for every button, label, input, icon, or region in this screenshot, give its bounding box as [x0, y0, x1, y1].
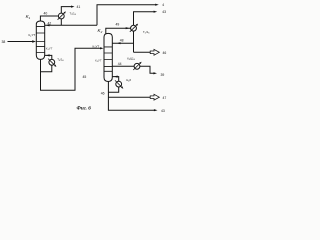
svg-text:49: 49 — [116, 23, 120, 27]
condenser diagonal arrow — [58, 13, 65, 20]
arrowhead stream 43 top — [154, 11, 158, 13]
svg-text:К2УТ: К2УТ — [93, 44, 100, 49]
column K1 trays — [36, 26, 44, 52]
arrowhead reflux K2 — [117, 42, 121, 44]
feed line 38 into K1 — [8, 41, 34, 43]
wire reflux into K2 — [112, 42, 133, 44]
arrowhead 41 — [71, 6, 75, 8]
column K2 trays — [104, 47, 112, 71]
arrowhead stream bottom right — [154, 109, 158, 111]
svg-text:41: 41 — [77, 5, 81, 9]
arrowhead into pump — [126, 27, 130, 29]
wire pump vertical main — [134, 12, 156, 53]
svg-text:Ц16: Ц16 — [126, 78, 131, 83]
svg-text:39: 39 — [161, 73, 165, 77]
svg-text:K1: K1 — [26, 14, 31, 20]
wire to open arrow 46 — [134, 51, 151, 53]
wire K1 bottoms to K2 feed — [41, 48, 102, 90]
svg-text:43: 43 — [162, 10, 166, 14]
svg-text:48: 48 — [120, 39, 124, 43]
pump circle K2 overhead — [131, 25, 137, 31]
svg-text:40: 40 — [44, 12, 48, 16]
svg-text:47: 47 — [163, 96, 167, 100]
wire condenser outlet / reflux header — [45, 19, 97, 25]
svg-text:К1УТ: К1УТ — [29, 33, 36, 38]
wire distillate 41 — [61, 7, 72, 14]
svg-text:К3УТ: К3УТ — [95, 58, 102, 63]
svg-text:K2: K2 — [98, 28, 103, 34]
svg-text:46: 46 — [101, 92, 105, 96]
svg-text:4: 4 — [162, 3, 164, 7]
svg-text:38: 38 — [2, 40, 6, 44]
svg-text:42: 42 — [48, 21, 52, 25]
wire K2 overhead — [106, 28, 131, 33]
svg-text:45: 45 — [83, 75, 87, 79]
circle on side draw — [134, 63, 140, 69]
wire K2 bottoms — [108, 82, 155, 111]
svg-text:К3УТ: К3УТ — [46, 46, 53, 51]
reboiler K2 return arrowhead — [114, 76, 118, 78]
reboiler K1 diagonal arrow — [48, 59, 55, 66]
svg-text:44: 44 — [118, 62, 122, 66]
reboiler K2 diagonal arrow — [115, 80, 122, 87]
feed arrowhead — [32, 40, 36, 42]
svg-text:46: 46 — [163, 51, 167, 55]
reboiler K1 loop — [41, 55, 52, 71]
svg-text:Фиг. 6: Фиг. 6 — [77, 106, 92, 112]
svg-text:43: 43 — [161, 109, 165, 113]
wire K2 side draw 44 — [112, 66, 155, 73]
reflux arrowhead into K1 — [46, 24, 50, 26]
column K2 shell — [104, 33, 112, 81]
reboiler K1 return arrowhead — [46, 54, 50, 56]
wire K1 overhead riser — [40, 16, 58, 21]
reboiler K2 loop — [108, 77, 118, 93]
wire riser to top header — [97, 5, 157, 26]
pump diagonal arrow — [130, 25, 137, 32]
open block arrow 47 — [150, 94, 159, 100]
reboiler K2 circle — [116, 81, 122, 87]
open block arrow 46 — [150, 49, 159, 55]
side draw circle diagonal arrow — [133, 63, 140, 70]
arrowhead K2 feed — [100, 47, 104, 49]
arrowhead top right — [155, 4, 159, 6]
arrowhead stream 39 — [153, 72, 157, 74]
column K1 shell — [36, 21, 44, 59]
reboiler K1 circle — [49, 59, 55, 65]
condenser circle T1 — [58, 13, 64, 19]
